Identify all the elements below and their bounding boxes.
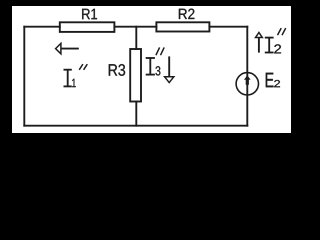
label I3 subscript 3 bbox=[156, 66, 161, 75]
label I3 symbol I bbox=[146, 58, 155, 75]
label E2 subscript 2 bbox=[274, 80, 280, 87]
wire R2 to top-right corner bbox=[209, 26, 247, 28]
resistor R1 bbox=[60, 22, 115, 32]
current arrow I3 tail bbox=[168, 56, 170, 76]
wire middle branch upper bbox=[135, 27, 137, 49]
white panel bbox=[12, 6, 291, 133]
resistor R2 bbox=[156, 22, 209, 31]
label E2 E bbox=[266, 73, 274, 87]
wire left branch bbox=[23, 27, 25, 126]
label R3 bbox=[109, 64, 125, 76]
current arrow I3 head bbox=[165, 77, 174, 83]
current arrow I2 head bbox=[256, 33, 263, 38]
label I2 double prime bbox=[278, 28, 286, 35]
resistor R3 bbox=[130, 49, 141, 102]
wire right branch bbox=[246, 27, 248, 126]
current arrow I1 head bbox=[56, 43, 61, 53]
label I3 double prime bbox=[156, 47, 164, 55]
current arrow I1 tail bbox=[61, 48, 78, 50]
label I1 symbol I bbox=[64, 70, 72, 87]
current arrow I2 tail bbox=[258, 38, 260, 53]
label R1 bbox=[82, 9, 97, 19]
label I1 subscript 1 bbox=[72, 79, 76, 87]
wire bottom bbox=[24, 125, 247, 127]
label I1 double prime bbox=[79, 64, 87, 70]
source E2 circle bbox=[236, 73, 258, 95]
label R2 bbox=[179, 9, 195, 19]
wire between R1 and R2 bbox=[114, 26, 156, 28]
source E2 internal arrow bbox=[244, 75, 251, 85]
wire top-left segment bbox=[24, 26, 60, 28]
label I2 symbol I bbox=[265, 38, 274, 53]
label I2 subscript 2 bbox=[274, 44, 281, 53]
wire middle branch lower bbox=[135, 102, 137, 126]
